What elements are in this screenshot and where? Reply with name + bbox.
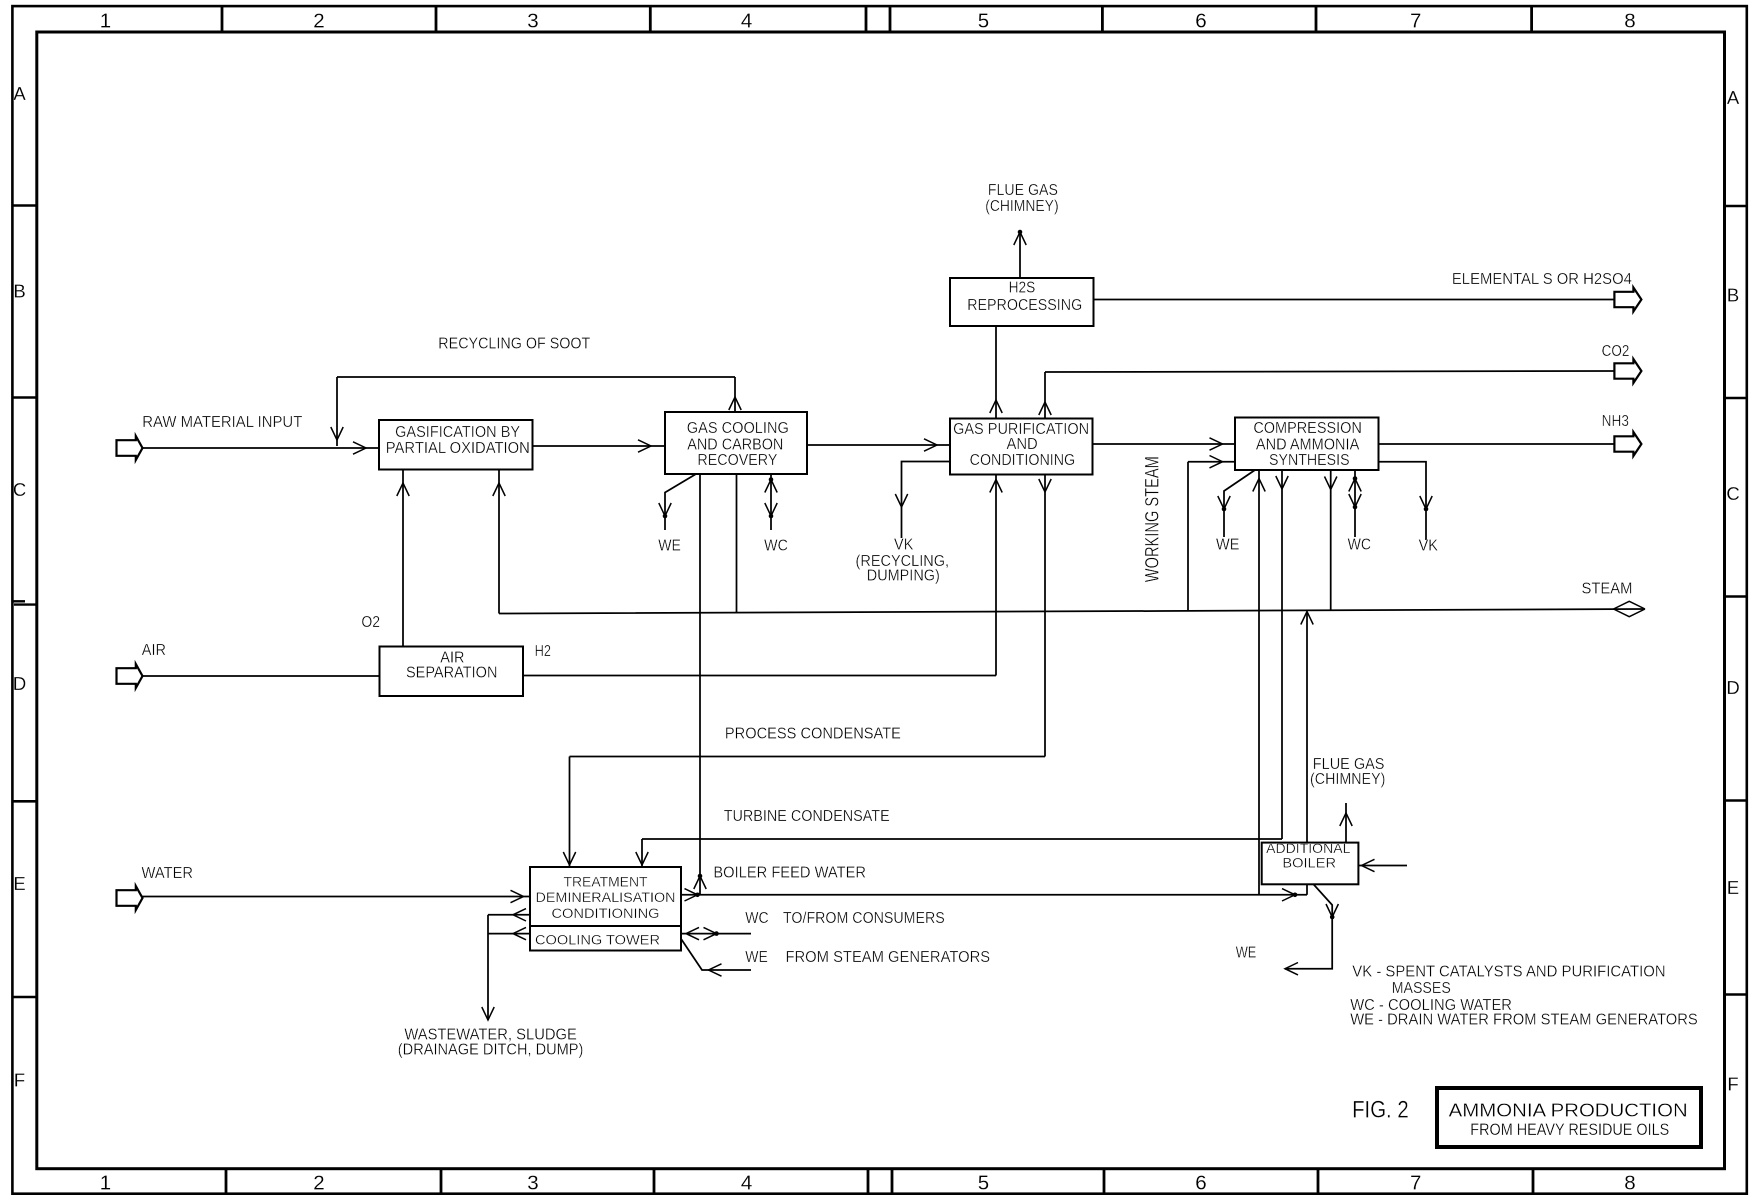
svg-text:8: 8 [1624,1172,1635,1195]
arrowhead recycling down [331,427,343,440]
arrowhead WE generators left [709,964,722,976]
svg-text:WE: WE [1216,537,1239,554]
svg-text:NH3: NH3 [1602,413,1629,430]
svg-text:GASIFICATION BY: GASIFICATION BY [395,424,520,441]
svg-text:1: 1 [100,1172,111,1195]
wire additional boiler steam riser to header [1306,612,1308,843]
wire WC gas cooling [770,474,772,530]
svg-text:SYNTHESIS: SYNTHESIS [1269,452,1350,469]
wire WE drain diagonal gas cooling [665,474,696,530]
svg-text:FLUE GAS: FLUE GAS [988,182,1058,199]
wire VK from purification left side [902,462,951,539]
svg-text:D: D [13,673,26,694]
svg-text:7: 7 [1410,1172,1421,1195]
svg-text:ELEMENTAL S OR H2SO4: ELEMENTAL S OR H2SO4 [1452,271,1632,288]
wire wastewater drop [487,915,489,1020]
arrowhead O2 up into gasification [397,483,409,496]
wire H2 riser into purification [995,475,997,676]
box GAS PURIFICATION AND CONDITIONING [950,419,1093,475]
wire steam header [499,609,1644,614]
wire purification to H2S reprocessing riser [995,326,997,419]
arrowhead WE drain down [659,503,671,516]
wire WE drain diagonal compression [1224,470,1255,537]
wire H2 from air separation [523,675,996,677]
svg-text:ADDITIONAL: ADDITIONAL [1266,841,1351,856]
svg-text:4: 4 [741,9,752,32]
arrowhead VK compression down [1420,496,1432,509]
arrowhead process condensate into treatment [563,852,575,865]
svg-text:4: 4 [741,1172,752,1195]
wire steam feed gasification riser [498,470,500,614]
arrowhead return upper left [513,909,526,921]
arrowhead H2S up [990,400,1002,413]
arrowhead water into treatment [511,890,524,902]
wire turbine condensate drop from compression [1281,470,1283,839]
svg-text:REPROCESSING: REPROCESSING [967,297,1082,314]
arrowhead steam up into gasification [493,483,505,496]
wire WC compression [1354,470,1356,537]
wire process condensate drop from purification [1044,475,1046,757]
box H2S REPROCESSING [950,278,1094,326]
title box AMMONIA PRODUCTION [1437,1088,1701,1147]
svg-text:3: 3 [527,1172,538,1195]
arrowhead WC compression down [1349,494,1361,507]
svg-text:C: C [13,479,26,500]
svg-text:H2: H2 [535,643,551,660]
wire process condensate horizontal [570,756,1046,758]
arrowhead BFW into additional boiler riser [1282,889,1295,901]
wire air input to air separation [143,675,380,677]
wire VK from compression right side [1379,462,1427,540]
arrowhead turbine condensate into treatment [636,852,648,865]
wire CO2 riser from purification [1044,372,1046,419]
arrowhead boiler WE down [1326,904,1338,917]
svg-text:BOILER: BOILER [1282,855,1336,870]
arrowhead boiler WE left [1285,963,1298,975]
svg-text:O2: O2 [361,614,380,631]
wire water input to treatment [143,896,531,898]
svg-text:TREATMENT: TREATMENT [564,875,648,891]
svg-text:SEPARATION: SEPARATION [406,665,498,682]
arrowhead VK down [895,494,907,507]
arrowhead H2 up into purification [990,480,1002,493]
svg-text:FROM HEAVY RESIDUE OILS: FROM HEAVY RESIDUE OILS [1470,1120,1669,1139]
wire treatment return upper [488,914,530,916]
wire BFW up into additional boiler bottom [1306,884,1308,895]
svg-text:VK - SPENT CATALYSTS AND PURI: VK - SPENT CATALYSTS AND PURIFICATION [1352,964,1665,981]
wire WC to/from consumers [681,933,751,935]
svg-text:CONDITIONING: CONDITIONING [552,906,660,922]
wire cooling tower return lower [488,933,530,935]
wire boiler feed water riser into gas cooling [699,474,701,895]
svg-text:A: A [1727,87,1740,108]
box ADDITIONAL BOILER [1262,843,1359,885]
svg-text:2: 2 [313,9,324,32]
svg-text:CO2: CO2 [1602,343,1630,360]
svg-text:C: C [1726,483,1739,504]
wire soot riser from gas cooling [734,377,736,412]
wire gas cooling steam down to header [736,474,738,613]
svg-text:F: F [1727,1074,1738,1095]
svg-text:WC: WC [1348,537,1371,554]
svg-text:WE: WE [745,949,768,966]
svg-text:WE: WE [658,538,681,555]
arrowhead stub into boiler [1362,859,1375,871]
svg-text:PROCESS CONDENSATE: PROCESS CONDENSATE [725,726,901,743]
wire compression to NH3 output [1379,443,1615,445]
svg-text:3: 3 [527,9,538,32]
svg-text:TO/FROM CONSUMERS: TO/FROM CONSUMERS [783,910,945,927]
arrowhead WE compression down [1218,496,1230,509]
arrowhead into gas cooling [638,440,651,452]
arrowhead WC up into compression [1349,479,1361,492]
arrowhead flue gas up [1014,232,1026,245]
box COOLING TOWER [530,926,681,951]
svg-text:RECOVERY: RECOVERY [697,452,777,469]
wire gas cooling to gas purification [807,444,950,446]
svg-text:DUMPING): DUMPING) [867,568,940,585]
wire WE drain from additional boiler [1285,884,1332,968]
box AIR SEPARATION [380,647,524,697]
arrowhead BFW out of treatment [685,889,698,901]
svg-text:COMPRESSION: COMPRESSION [1253,420,1362,437]
arrowhead wastewater down [482,1007,494,1020]
svg-text:VK: VK [894,537,914,554]
wire boiler feed water main [681,894,1307,896]
svg-text:F: F [14,1070,25,1091]
double arrow STEAM [1614,601,1630,609]
wire raw material input to gasification [143,447,380,449]
wire gasification to gas cooling [533,445,666,447]
svg-text:GAS COOLING: GAS COOLING [687,420,789,437]
left band row tick C/D stepped [12,600,25,602]
svg-text:TURBINE CONDENSATE: TURBINE CONDENSATE [724,808,890,825]
arrowhead turbine condensate down at compression [1276,476,1288,489]
block arrow output CO2 [1614,359,1641,383]
box GASIFICATION BY PARTIAL OXIDATION [379,420,533,470]
arrowhead process condensate down at purification [1039,479,1051,492]
svg-text:(CHIMNEY): (CHIMNEY) [1310,771,1385,788]
svg-text:6: 6 [1195,1172,1206,1195]
arrowhead WC up into gas cooling [765,480,777,493]
wire recycling of soot horizontal [337,376,735,378]
svg-text:WORKING STEAM: WORKING STEAM [1142,456,1163,582]
svg-text:COOLING TOWER: COOLING TOWER [535,932,660,948]
wire H2S reprocessing chimney riser [1019,230,1021,278]
svg-text:FIG. 2: FIG. 2 [1352,1097,1409,1124]
svg-text:WATER: WATER [142,865,194,882]
wire turbine condensate horizontal [642,838,1282,840]
wire stub into additional boiler right [1358,865,1407,867]
block arrow output ELEMENTAL S OR H2SO4 [1614,288,1641,312]
svg-text:CONDITIONING: CONDITIONING [970,452,1076,469]
wire process condensate drop to treatment [569,757,571,868]
wire working steam into compression [1188,461,1235,463]
svg-text:B: B [1727,285,1739,306]
svg-text:DEMINERALISATION: DEMINERALISATION [536,890,676,906]
block arrow output NH3 [1614,432,1641,456]
arrowhead WC consumers right [704,927,717,939]
svg-text:5: 5 [978,1172,989,1195]
wire compression steam down to header [1330,470,1332,610]
box COMPRESSION AND AMMONIA SYNTHESIS [1235,418,1379,471]
right band row ticks [1725,205,1747,208]
wire turbine condensate drop to treatment [641,839,643,867]
svg-text:AND: AND [1006,436,1037,453]
arrowhead BFW up into gas cooling [694,876,706,889]
wire O2 air separation to gasification [402,470,404,647]
svg-text:1: 1 [100,9,111,32]
top band column ticks [221,6,224,32]
svg-text:WC: WC [764,538,788,555]
svg-text:AMMONIA PRODUCTION: AMMONIA PRODUCTION [1449,1100,1688,1121]
svg-text:E: E [1727,877,1739,898]
svg-text:AND AMMONIA: AND AMMONIA [1256,436,1360,453]
box TREATMENT DEMINERALISATION CONDITIONING [530,867,681,926]
wire H2S reprocessing to elemental S output [1094,299,1615,301]
arrowhead boiler steam up into header [1301,612,1313,625]
svg-text:H2S: H2S [1009,280,1036,297]
svg-text:D: D [1726,677,1739,698]
left band row ticks [12,204,36,207]
svg-text:WE - DRAIN WATER FROM STEAM GE: WE - DRAIN WATER FROM STEAM GENERATORS [1350,1011,1698,1028]
svg-text:(DRAINAGE DITCH, DUMP): (DRAINAGE DITCH, DUMP) [398,1041,584,1058]
svg-text:A: A [13,83,26,104]
svg-text:AND CARBON: AND CARBON [687,436,783,453]
block arrow AIR [117,664,143,688]
arrowhead soot up [729,397,741,410]
wire flue gas riser from additional boiler [1345,803,1347,843]
arrowhead flue gas boiler up [1340,813,1352,826]
svg-text:WE: WE [1236,945,1257,962]
svg-text:2: 2 [313,1172,324,1195]
svg-text:RAW MATERIAL INPUT: RAW MATERIAL INPUT [142,414,302,431]
svg-text:AIR: AIR [142,642,166,659]
svg-text:E: E [13,873,25,894]
svg-text:6: 6 [1195,9,1206,32]
box GAS COOLING AND CARBON RECOVERY [665,412,807,474]
arrowhead CO2 riser up [1039,402,1051,415]
svg-text:FROM STEAM GENERATORS: FROM STEAM GENERATORS [786,949,991,966]
wire gas purification to compression [1093,443,1236,445]
wire CO2 to output [1045,371,1614,372]
svg-text:7: 7 [1410,9,1421,32]
svg-text:(CHIMNEY): (CHIMNEY) [985,198,1058,215]
wire BFW riser into compression [1258,470,1260,895]
wire WE from steam generators diagonal [681,939,751,970]
svg-text:STEAM: STEAM [1582,581,1633,598]
arrowhead return lower left [513,927,526,939]
arrowhead BFW up into compression [1253,479,1265,492]
svg-text:WC: WC [745,910,768,927]
arrowhead WC down [765,503,777,516]
arrowhead into gasification [353,442,366,454]
svg-text:8: 8 [1624,9,1635,32]
svg-text:5: 5 [978,9,989,32]
arrowhead into compression [1210,438,1223,450]
svg-text:B: B [13,281,25,302]
svg-text:VK: VK [1419,537,1439,554]
block arrow RAW MATERIAL INPUT [117,436,143,460]
wire recycling drop to raw material line [336,377,338,446]
arrowhead WC consumers left [686,927,699,939]
wire working steam riser [1187,462,1189,611]
svg-text:BOILER FEED WATER: BOILER FEED WATER [713,865,866,882]
bottom band column ticks [225,1169,228,1194]
arrowhead working steam into compression [1210,456,1223,468]
svg-text:MASSES: MASSES [1392,980,1451,997]
arrowhead compression steam down [1325,477,1337,490]
svg-text:RECYCLING OF SOOT: RECYCLING OF SOOT [438,336,590,353]
svg-text:PARTIAL OXIDATION: PARTIAL OXIDATION [386,440,530,457]
block arrow WATER [117,886,143,910]
arrowhead into gas purification [924,439,937,451]
